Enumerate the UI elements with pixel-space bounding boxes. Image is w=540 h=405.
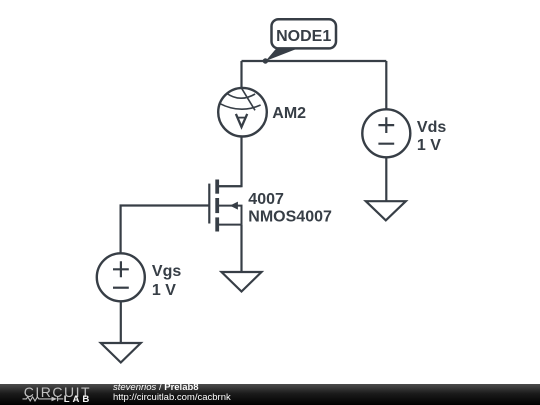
wire Vgs bottom — [120, 301, 122, 343]
transistor M1 NMOS4007 — [209, 180, 241, 232]
ammeter AM2 — [218, 88, 267, 137]
channel bar source — [215, 217, 219, 231]
channel bar body — [215, 198, 219, 213]
node NODE1 flag — [266, 19, 336, 61]
source Vds — [362, 109, 410, 157]
svg-text:NODE1: NODE1 — [276, 28, 331, 45]
gate plate — [208, 184, 210, 224]
footer bar — [0, 384, 540, 405]
svg-text:4007: 4007 — [248, 191, 284, 208]
wire ammeter bottom to drain — [219, 137, 242, 187]
ground under transistor — [222, 272, 262, 292]
body connect — [217, 206, 241, 225]
svg-text:1 V: 1 V — [152, 282, 176, 299]
body arrow — [230, 202, 238, 210]
wire top horizontal NODE1 net — [242, 60, 387, 62]
ground under Vgs — [101, 343, 141, 363]
svg-text:1 V: 1 V — [417, 137, 441, 154]
wire gate to Vgs — [121, 206, 210, 254]
svg-text:AM2: AM2 — [272, 105, 306, 122]
svg-text:Vgs: Vgs — [152, 263, 181, 280]
junction dot — [263, 58, 268, 63]
source connect — [217, 224, 241, 226]
svg-text:Vds: Vds — [417, 119, 446, 136]
wire ammeter top — [240, 61, 242, 88]
wire source down — [240, 225, 242, 272]
wire Vds top — [385, 61, 387, 110]
circuitlab logo — [0, 384, 110, 405]
wire Vds bottom — [385, 157, 387, 201]
svg-text:NMOS4007: NMOS4007 — [248, 208, 332, 225]
svg-text:LAB: LAB — [64, 394, 92, 405]
footer text — [113, 383, 231, 403]
channel bar drain — [215, 180, 219, 194]
drain connect — [217, 185, 241, 187]
ground under Vds — [366, 201, 406, 220]
source Vgs — [97, 253, 145, 301]
